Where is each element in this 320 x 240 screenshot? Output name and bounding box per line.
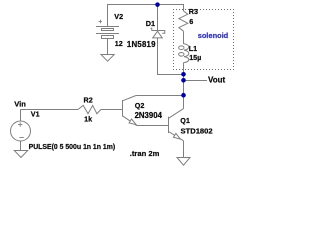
node C junction dot (collector tie) (181, 93, 186, 98)
svg-text:Vout: Vout (208, 76, 226, 85)
voltage source V2 (battery symbol) (96, 20, 119, 39)
svg-text:PULSE(0 5 500u 1n 1n 1m): PULSE(0 5 500u 1n 1n 1m) (29, 144, 116, 151)
solenoid annotation dotted box (174, 10, 234, 70)
svg-text:V1: V1 (31, 109, 40, 118)
node B junction dot (Vout tap) (181, 78, 186, 83)
wire D1 cathode lead (157, 5, 159, 31)
inductor L1 (179, 44, 189, 63)
svg-text:V2: V2 (114, 12, 123, 21)
wire battery bottom lead (107, 39, 109, 56)
svg-text:solenoid: solenoid (198, 31, 229, 40)
svg-text:.tran 2m: .tran 2m (130, 149, 160, 158)
svg-text:Q1: Q1 (180, 116, 190, 125)
svg-text:12: 12 (115, 39, 123, 48)
ground under Q1 (177, 158, 190, 166)
resistor R2 (78, 105, 101, 113)
svg-text:Vin: Vin (14, 99, 26, 108)
wire Q1 emitter lead (183, 141, 185, 158)
node dot at D1 cathode / top rail (155, 2, 160, 7)
svg-text:D1: D1 (146, 19, 155, 28)
diode D1 schottky (151, 28, 165, 38)
transistor Q1 (STD1802 NPN) (169, 109, 184, 141)
wire Vout stub (184, 80, 208, 82)
wire battery top lead (107, 5, 109, 27)
ground under V1 (14, 151, 27, 158)
svg-text:STD1802: STD1802 (181, 126, 213, 135)
svg-text:2N3904: 2N3904 (135, 111, 163, 120)
node A junction dot (181, 72, 186, 77)
wire Q2 collector to node C (136, 95, 184, 97)
wire Vin lead (21, 109, 79, 111)
wire L1 bottom lead / collector tie vertical (183, 63, 185, 109)
svg-text:R2: R2 (84, 96, 93, 105)
wire top rail (107, 4, 184, 6)
resistor R3 (179, 5, 188, 44)
svg-text:15µ: 15µ (189, 53, 201, 62)
svg-text:6: 6 (189, 17, 193, 26)
voltage source V1 (11, 110, 31, 151)
svg-text:R3: R3 (189, 7, 198, 16)
ground under V2 (101, 55, 114, 62)
transistor Q2 (2N3904 NPN) (123, 96, 137, 126)
svg-text:1N5819: 1N5819 (127, 40, 156, 49)
wire Q2 emitter to Q1 base (137, 125, 169, 127)
wire D1 anode lead (158, 38, 184, 75)
wire R2 to Q2 base (101, 109, 123, 111)
svg-text:Q2: Q2 (135, 101, 145, 110)
svg-text:1k: 1k (84, 114, 92, 123)
svg-text:L1: L1 (189, 44, 197, 53)
